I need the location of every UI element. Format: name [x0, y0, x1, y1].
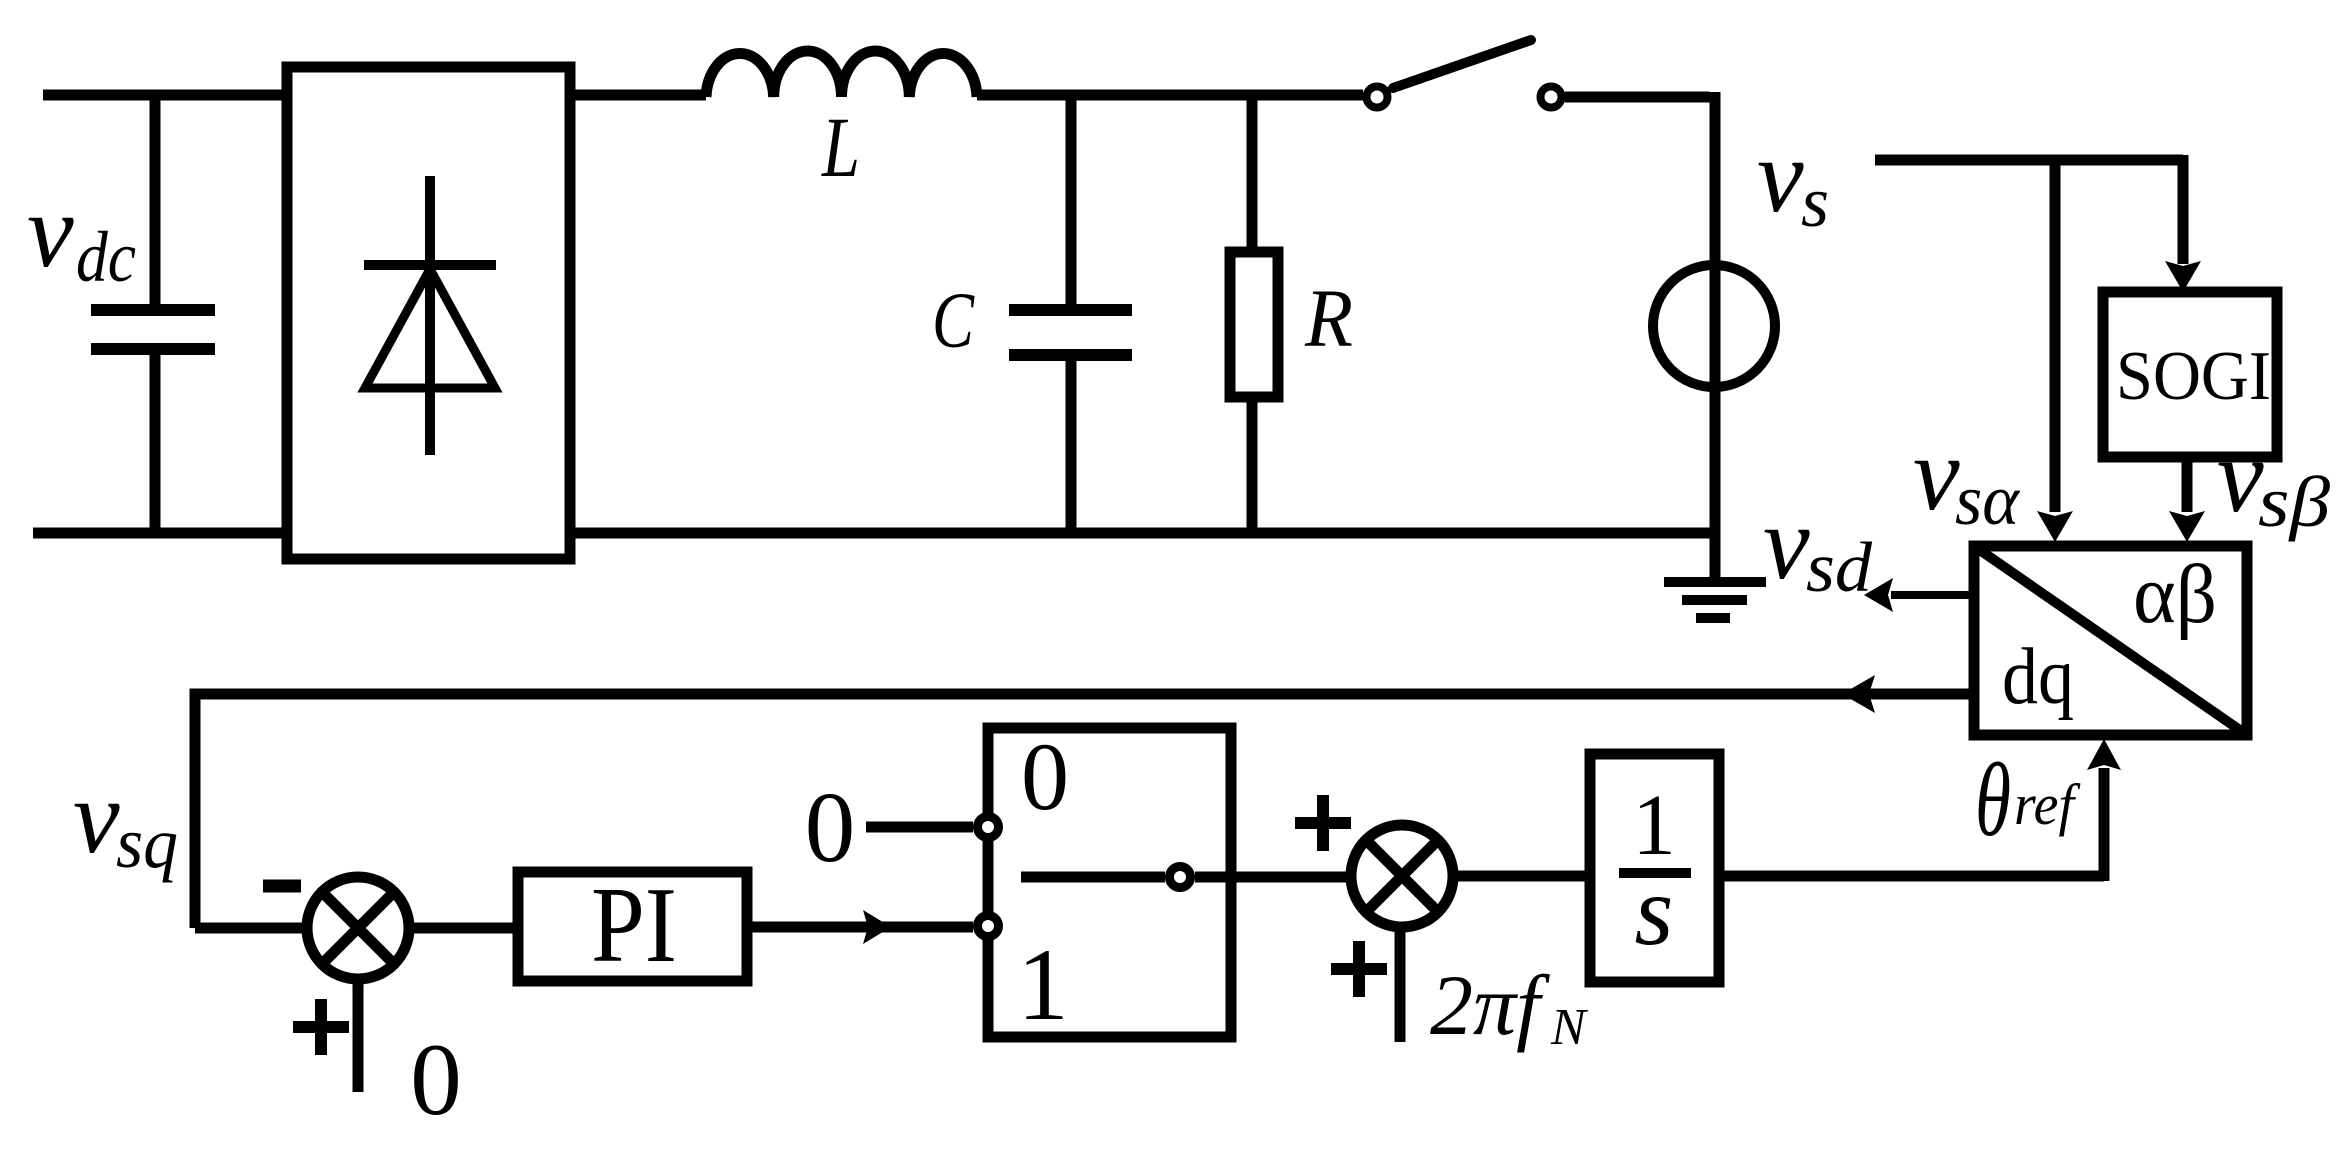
wire SOGI out	[2182, 457, 2193, 512]
svg-text:dq: dq	[2002, 633, 2074, 721]
selector input terminal 1	[978, 916, 999, 937]
PI box	[518, 872, 747, 981]
capacitor Cdc top lead	[150, 95, 161, 305]
thyristor cathode bar	[364, 260, 496, 270]
thyristor triangle	[365, 269, 495, 388]
capacitor Cdc plates	[91, 310, 215, 349]
integrator box	[1590, 754, 1719, 982]
arrowhead into SOGI	[2165, 261, 2201, 292]
wire PI to selector	[747, 922, 973, 933]
switch blade	[1393, 40, 1531, 88]
wire sense top	[1875, 155, 2183, 264]
switch pole circle	[1367, 87, 1388, 108]
plus sign sum1	[293, 999, 349, 1055]
capacitor C plates	[1009, 310, 1132, 355]
svg-text:sβ: sβ	[2258, 462, 2330, 542]
svg-text:2πf: 2πf	[1430, 957, 1550, 1053]
svg-text:0: 0	[805, 771, 856, 883]
ab-dq diagonal	[1974, 546, 2247, 735]
svg-text:s: s	[1635, 855, 1674, 966]
selector wiper line	[1021, 872, 1165, 883]
inductor L	[706, 51, 977, 97]
inverter box	[287, 67, 570, 559]
wire sum2 to integrator	[1453, 871, 1590, 882]
wire theta_ref	[1719, 768, 2104, 881]
wire bottom bus	[570, 528, 1715, 539]
SOGI box	[2103, 292, 2277, 457]
arrowhead v_sq feedback	[1842, 675, 1875, 713]
svg-text:PI: PI	[591, 866, 677, 985]
svg-text:SOGI: SOGI	[2116, 338, 2271, 415]
svg-text:αβ: αβ	[2133, 548, 2217, 641]
wire v_sd out	[1891, 591, 1974, 599]
wire v_salpha down	[2050, 155, 2061, 512]
wire sum1 to PI	[409, 923, 518, 934]
node C top lead	[1066, 95, 1077, 305]
resistor R bottom lead	[1247, 397, 1258, 533]
arrowhead theta_ref	[2087, 739, 2121, 770]
selector box	[988, 728, 1231, 1037]
svg-text:sd: sd	[1806, 529, 1873, 607]
wire dc bus top to inductor	[570, 90, 706, 101]
wire v_sq feedback	[195, 694, 1974, 928]
sum1 bottom stub	[353, 979, 364, 1092]
summing junction S2 circle	[1351, 825, 1453, 927]
svg-text:N: N	[1550, 999, 1589, 1056]
svg-text:v: v	[73, 758, 120, 875]
svg-text:R: R	[1304, 272, 1353, 364]
svg-text:1: 1	[1017, 928, 1069, 1042]
svg-text:L: L	[820, 99, 860, 195]
capacitor C bottom lead	[1066, 360, 1077, 533]
svg-text:ref: ref	[2014, 772, 2081, 837]
plus sign sum2 top	[1295, 795, 1351, 851]
selector output terminal	[1170, 867, 1191, 888]
svg-text:C: C	[932, 278, 975, 365]
svg-text:v: v	[1913, 415, 1960, 532]
arrowhead v_sd	[1864, 578, 1893, 612]
summing junction S1 circle	[307, 877, 409, 979]
source vs circle	[1653, 265, 1775, 387]
svg-text:sq: sq	[116, 803, 178, 883]
arrowhead v_salpha	[2037, 511, 2073, 542]
summing junction S1 cross	[322, 892, 394, 964]
svg-text:v: v	[1757, 117, 1804, 234]
svg-text:s: s	[1801, 162, 1829, 242]
svg-text:v: v	[1763, 484, 1810, 601]
wire switch to source and down	[1565, 92, 1715, 580]
capacitor Cdc bottom lead	[150, 354, 161, 533]
svg-text:sα: sα	[1955, 460, 2020, 540]
ground	[1664, 582, 1766, 618]
resistor R body	[1230, 252, 1278, 397]
thyristor vertical lead	[425, 176, 435, 455]
wire top-left	[43, 90, 287, 101]
svg-text:v: v	[2217, 417, 2264, 534]
sum2 bottom stub	[1395, 927, 1406, 1042]
svg-text:dc: dc	[76, 217, 136, 297]
arrowhead v_sbeta	[2169, 511, 2205, 542]
ab-dq box	[1974, 546, 2247, 735]
plus sign sum2 bottom	[1331, 941, 1387, 997]
switch throw circle	[1541, 87, 1562, 108]
svg-text:0: 0	[410, 1023, 462, 1137]
wire L to switch	[977, 90, 1363, 101]
summing junction S2 cross	[1366, 840, 1438, 912]
wire v_sq to sum1	[195, 923, 309, 934]
wire selector to sum2	[1195, 872, 1351, 883]
arrowhead PI out	[863, 910, 891, 944]
minus sign sum1	[263, 880, 301, 893]
svg-text:θ: θ	[1975, 741, 2011, 858]
integrator fraction bar	[1619, 868, 1691, 878]
resistor R top lead	[1247, 95, 1258, 252]
wire bottom-left	[33, 528, 287, 539]
svg-text:0: 0	[1021, 723, 1069, 830]
selector input terminal 0	[978, 817, 999, 838]
svg-text:v: v	[27, 172, 74, 289]
wire zero input	[866, 822, 973, 833]
